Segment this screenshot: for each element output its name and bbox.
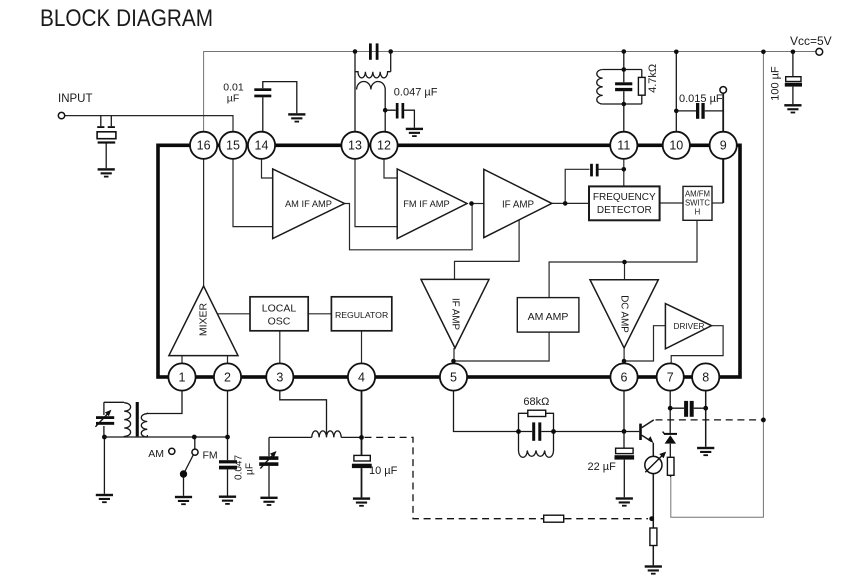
svg-text:15: 15: [226, 139, 240, 153]
svg-text:13: 13: [348, 139, 362, 153]
svg-text:AM IF AMP: AM IF AMP: [285, 199, 332, 209]
svg-text:12: 12: [377, 139, 391, 153]
svg-text:AM AMP: AM AMP: [528, 311, 569, 323]
svg-text:FM: FM: [203, 450, 218, 462]
svg-text:10: 10: [669, 139, 683, 153]
svg-text:IF AMP: IF AMP: [502, 200, 535, 211]
svg-text:5: 5: [450, 370, 457, 384]
svg-text:MIXER: MIXER: [198, 302, 210, 336]
svg-text:FM IF AMP: FM IF AMP: [403, 199, 449, 209]
svg-text:µF: µF: [227, 93, 239, 105]
svg-text:SWITC: SWITC: [685, 199, 710, 208]
svg-text:Vcc=5V: Vcc=5V: [790, 34, 832, 48]
svg-text:8: 8: [702, 370, 709, 384]
svg-text:10 µF: 10 µF: [369, 465, 398, 477]
svg-text:DRIVER: DRIVER: [674, 322, 705, 331]
svg-text:2: 2: [224, 370, 231, 384]
svg-text:1: 1: [179, 370, 186, 384]
svg-text:0.047 µF: 0.047 µF: [394, 87, 438, 99]
svg-text:AM/FM: AM/FM: [685, 190, 710, 199]
svg-text:6: 6: [621, 370, 628, 384]
svg-text:µF: µF: [245, 463, 256, 475]
svg-text:4.7kΩ: 4.7kΩ: [647, 64, 659, 93]
svg-text:0.015 µF: 0.015 µF: [679, 93, 723, 105]
svg-text:REGULATOR: REGULATOR: [335, 310, 388, 320]
svg-text:3: 3: [276, 370, 283, 384]
svg-text:0.047: 0.047: [234, 455, 245, 480]
svg-text:22 µF: 22 µF: [588, 461, 617, 473]
svg-text:FREQUENCY: FREQUENCY: [593, 192, 656, 203]
svg-text:AM: AM: [148, 448, 164, 460]
svg-text:H: H: [695, 208, 701, 217]
svg-text:BLOCK DIAGRAM: BLOCK DIAGRAM: [40, 5, 213, 32]
svg-text:16: 16: [197, 139, 211, 153]
svg-text:4: 4: [358, 370, 365, 384]
svg-text:DETECTOR: DETECTOR: [597, 205, 652, 216]
svg-text:11: 11: [617, 139, 630, 153]
svg-text:100 µF: 100 µF: [770, 66, 782, 101]
svg-text:68kΩ: 68kΩ: [523, 396, 549, 408]
svg-text:14: 14: [255, 139, 269, 153]
svg-text:INPUT: INPUT: [58, 93, 93, 105]
svg-text:OSC: OSC: [268, 316, 291, 328]
svg-text:9: 9: [720, 139, 727, 153]
svg-text:7: 7: [667, 370, 674, 384]
svg-text:DC AMP: DC AMP: [619, 295, 630, 333]
svg-text:IF AMP: IF AMP: [450, 298, 461, 331]
svg-text:LOCAL: LOCAL: [262, 303, 297, 315]
